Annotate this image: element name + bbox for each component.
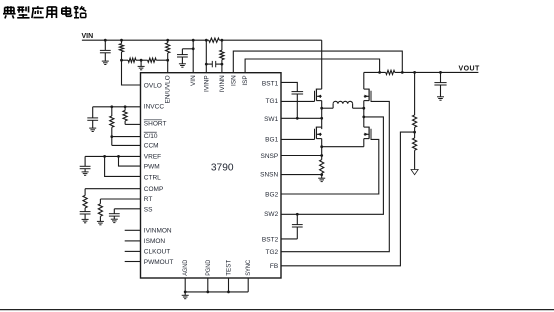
svg-text:ISP: ISP bbox=[242, 75, 249, 85]
svg-text:IVINN: IVINN bbox=[219, 75, 226, 92]
svg-text:SW2: SW2 bbox=[264, 211, 278, 218]
svg-text:RT: RT bbox=[144, 196, 153, 203]
svg-text:IVINMON: IVINMON bbox=[144, 228, 172, 235]
svg-text:SYNC: SYNC bbox=[245, 259, 252, 275]
svg-text:ISMON: ISMON bbox=[144, 238, 166, 245]
svg-text:VOUT: VOUT bbox=[459, 65, 481, 72]
svg-text:SNSN: SNSN bbox=[260, 172, 278, 179]
svg-text:C/10: C/10 bbox=[144, 133, 158, 140]
svg-text:BST2: BST2 bbox=[262, 236, 279, 243]
svg-text:PGND: PGND bbox=[205, 259, 212, 275]
svg-text:BG1: BG1 bbox=[265, 136, 278, 143]
svg-text:BST1: BST1 bbox=[262, 80, 279, 87]
svg-text:COMP: COMP bbox=[144, 186, 164, 193]
svg-text:FB: FB bbox=[270, 263, 278, 270]
svg-text:VREF: VREF bbox=[144, 154, 161, 161]
svg-text:VIN: VIN bbox=[190, 75, 197, 86]
svg-text:IVINP: IVINP bbox=[203, 75, 210, 92]
svg-text:EN/UVLO: EN/UVLO bbox=[165, 75, 172, 103]
svg-text:SHORT: SHORT bbox=[144, 121, 167, 128]
svg-text:OVLO: OVLO bbox=[144, 82, 162, 89]
svg-text:TG2: TG2 bbox=[266, 249, 279, 256]
svg-text:PWM: PWM bbox=[144, 163, 160, 170]
svg-text:CCM: CCM bbox=[144, 143, 159, 150]
svg-text:CTRL: CTRL bbox=[144, 175, 161, 182]
svg-text:TEST: TEST bbox=[226, 260, 233, 276]
svg-text:SW1: SW1 bbox=[264, 116, 278, 123]
svg-text:AGND: AGND bbox=[182, 259, 189, 275]
svg-text:TG1: TG1 bbox=[266, 98, 279, 105]
svg-text:INVCC: INVCC bbox=[144, 104, 165, 111]
svg-text:SS: SS bbox=[144, 206, 153, 213]
svg-text:CLKOUT: CLKOUT bbox=[144, 249, 170, 256]
svg-text:SNSP: SNSP bbox=[260, 153, 278, 160]
svg-text:PWMOUT: PWMOUT bbox=[144, 259, 174, 266]
svg-text:ISN: ISN bbox=[230, 75, 237, 86]
svg-text:3790: 3790 bbox=[211, 162, 234, 173]
svg-text:BG2: BG2 bbox=[265, 192, 278, 199]
svg-text:VIN: VIN bbox=[82, 33, 94, 40]
